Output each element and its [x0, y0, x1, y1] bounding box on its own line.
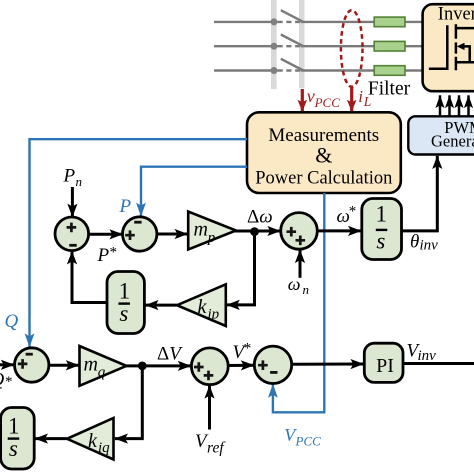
svg-text:*: *: [244, 341, 252, 357]
svg-text:*: *: [110, 245, 118, 261]
svg-text:Power Calculation: Power Calculation: [255, 169, 392, 189]
svg-text:ref: ref: [207, 440, 226, 457]
svg-text:P: P: [97, 245, 110, 266]
svg-text:inv: inv: [418, 348, 437, 364]
svg-text:*: *: [5, 374, 13, 390]
svg-text:k: k: [88, 430, 98, 452]
svg-text:ip: ip: [208, 307, 220, 323]
svg-text:Inverter: Inverter: [438, 4, 474, 24]
svg-text:Δω: Δω: [247, 206, 273, 227]
svg-text:m: m: [194, 219, 208, 241]
svg-text:n: n: [303, 282, 310, 297]
svg-text:1: 1: [376, 202, 388, 227]
svg-text:P: P: [63, 166, 76, 187]
svg-text:iq: iq: [98, 440, 110, 456]
svg-text:PCC: PCC: [295, 434, 322, 449]
svg-text:ω: ω: [288, 274, 301, 294]
svg-text:PI: PI: [376, 355, 394, 377]
svg-text:ΔV: ΔV: [157, 344, 183, 365]
svg-text:n: n: [76, 174, 83, 189]
svg-text:q: q: [98, 365, 106, 381]
svg-text:p: p: [207, 230, 216, 246]
svg-text:L: L: [363, 94, 372, 109]
svg-text:Q: Q: [0, 370, 5, 391]
svg-text:inv: inv: [420, 237, 439, 253]
svg-text:θ: θ: [410, 232, 419, 253]
svg-text:1: 1: [119, 278, 131, 303]
svg-text:PCC: PCC: [314, 95, 341, 110]
svg-text:Filter: Filter: [368, 78, 411, 99]
svg-text:Generator: Generator: [431, 132, 474, 151]
svg-text:s: s: [9, 436, 18, 461]
svg-text:P: P: [119, 196, 132, 217]
svg-text:&: &: [315, 143, 332, 168]
svg-text:*: *: [349, 204, 357, 220]
svg-text:1: 1: [8, 414, 20, 439]
svg-text:Q: Q: [5, 311, 19, 332]
svg-text:i: i: [358, 87, 363, 106]
svg-text:s: s: [119, 301, 128, 326]
svg-text:v: v: [307, 86, 315, 106]
svg-text:k: k: [198, 296, 208, 318]
svg-text:s: s: [376, 228, 385, 253]
svg-text:m: m: [84, 353, 98, 375]
